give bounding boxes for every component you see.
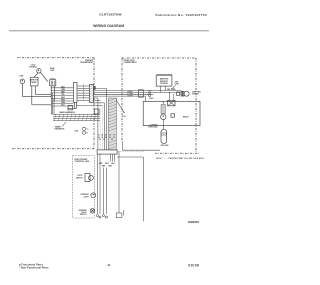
svg-text:12 BLK: 12 BLK (127, 91, 133, 93)
svg-text:DEF: DEF (175, 81, 178, 83)
svg-text:DEF TERM: DEF TERM (167, 89, 176, 91)
svg-text:10 WHT: 10 WHT (127, 95, 133, 97)
svg-text:OVERLOAD: OVERLOAD (148, 126, 158, 129)
svg-text:15: 15 (105, 134, 107, 136)
svg-text:COMPARTMENT: COMPARTMENT (80, 61, 94, 64)
svg-text:L1: L1 (87, 129, 89, 131)
svg-text:MAIN HARNESS: MAIN HARNESS (60, 111, 76, 114)
svg-text:SWITCH: SWITCH (76, 177, 83, 179)
svg-text:CONTROL HSG: CONTROL HSG (75, 161, 90, 163)
svg-text:09/06: 09/06 (188, 263, 199, 267)
svg-text:RUN CAP: RUN CAP (161, 144, 170, 147)
svg-text:CAP: CAP (50, 69, 55, 72)
svg-text:COMPARTMENT: COMPARTMENT (124, 61, 138, 64)
svg-text:3: 3 (83, 89, 84, 91)
svg-text:WHT: WHT (105, 163, 109, 165)
svg-text:MOTOR: MOTOR (192, 94, 199, 96)
svg-text:5: 5 (83, 94, 84, 96)
svg-text:18: 18 (98, 137, 100, 139)
svg-text:19: 19 (101, 137, 103, 139)
svg-text:22: 22 (113, 137, 115, 139)
svg-text:17: 17 (113, 134, 115, 136)
svg-text:WIRING DIAGRAM: WIRING DIAGRAM (93, 24, 124, 28)
svg-text:LINE: LINE (74, 130, 78, 132)
svg-text:25: 25 (111, 139, 113, 141)
svg-text:1: 1 (83, 85, 84, 87)
svg-text:21: 21 (109, 137, 111, 139)
svg-text:13: 13 (98, 134, 100, 136)
svg-text:SWITCH: SWITCH (80, 214, 87, 216)
svg-text:CONTROL: CONTROL (160, 83, 168, 85)
svg-text:16: 16 (109, 134, 111, 136)
svg-text:2: 2 (83, 87, 84, 89)
svg-text:6: 6 (83, 96, 84, 98)
svg-text:8 GRY: 8 GRY (149, 98, 153, 100)
svg-text:7: 7 (83, 99, 84, 101)
svg-text:* Non-Functional Parts: * Non-Functional Parts (19, 267, 49, 270)
svg-text:P12: P12 (123, 116, 126, 118)
svg-text:-11-: -11- (106, 263, 111, 267)
svg-text:11 ORN: 11 ORN (127, 93, 134, 95)
svg-text:TIMER: TIMER (31, 82, 37, 84)
svg-text:20: 20 (105, 137, 107, 139)
svg-text:240868301: 240868301 (188, 221, 200, 224)
svg-text:23: 23 (99, 139, 101, 141)
svg-text:CONTROL: CONTROL (29, 66, 37, 68)
svg-text:YEL: YEL (61, 94, 64, 96)
svg-text:GLRT183TDW: GLRT183TDW (99, 12, 121, 16)
svg-text:RELAY: RELAY (183, 116, 189, 119)
svg-text:Publication No. 5995423750: Publication No. 5995423750 (155, 13, 207, 17)
svg-text:HARNESS: HARNESS (55, 128, 65, 131)
